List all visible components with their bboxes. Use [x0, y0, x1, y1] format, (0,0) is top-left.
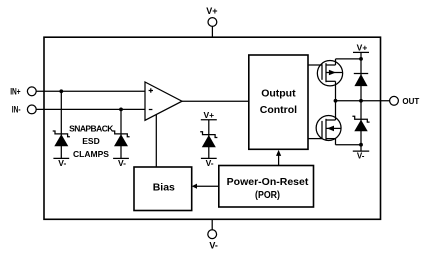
svg-text:V-: V- [58, 158, 66, 168]
svg-text:V-: V- [206, 158, 214, 168]
svg-text:V+: V+ [206, 6, 217, 16]
svg-text:OUT: OUT [402, 97, 419, 106]
svg-text:V+: V+ [203, 110, 214, 120]
svg-text:Output: Output [261, 87, 296, 99]
svg-text:ESD: ESD [82, 136, 99, 146]
svg-text:(POR): (POR) [255, 189, 280, 201]
svg-text:SNAPBACK: SNAPBACK [69, 124, 114, 134]
svg-text:IN+: IN+ [10, 87, 20, 97]
svg-text:Bias: Bias [153, 181, 175, 193]
svg-text:V-: V- [209, 241, 218, 251]
svg-text:V-: V- [357, 152, 365, 161]
svg-text:V-: V- [118, 158, 126, 168]
svg-text:Control: Control [260, 104, 297, 116]
svg-text:IN-: IN- [12, 105, 21, 115]
svg-text:CLAMPS: CLAMPS [73, 149, 109, 159]
svg-text:Power-On-Reset: Power-On-Reset [227, 176, 309, 188]
svg-text:V+: V+ [357, 42, 368, 52]
